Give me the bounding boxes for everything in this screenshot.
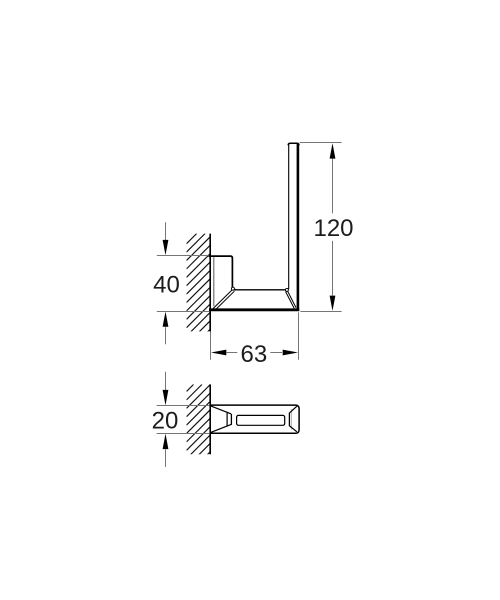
bracket right chamfer diagonals <box>287 290 296 307</box>
bar right cap shading line <box>290 409 292 430</box>
dimension 20 bottom extension line <box>157 433 210 435</box>
bar neck right vertical <box>288 413 290 427</box>
dimension 20 top extension line <box>157 405 210 407</box>
bar right taper diagonal top <box>290 406 297 413</box>
dimension 120 top arrow <box>330 143 336 158</box>
bar top edge (bottom view) <box>210 405 300 433</box>
ledge corner node right <box>285 288 288 291</box>
wall edge line (bottom view) <box>209 384 211 454</box>
wall hatch (side view) <box>187 234 306 353</box>
wall edge line (side view) <box>209 234 211 332</box>
svg-text:63: 63 <box>241 341 268 368</box>
ledge corner node left <box>231 287 234 290</box>
dimension 20 bottom arrow <box>163 434 169 449</box>
dimension 120 bottom arrow <box>330 296 336 311</box>
dimension 40 bottom arrow <box>163 312 169 327</box>
dimension 120 line lower segment <box>332 241 334 296</box>
bar neck left verticals <box>230 414 232 425</box>
upright bar top edge <box>288 143 299 145</box>
bar left taper diagonal bottom <box>210 424 231 432</box>
bracket bottom edge (thick) <box>209 308 299 311</box>
dimension 120 line upper segment <box>332 159 334 214</box>
dimension 40 bottom extension line <box>157 311 209 313</box>
dimension 20 line bottom tail <box>165 449 167 467</box>
bar inner face rounded rectangle <box>237 415 285 425</box>
dimension 120 bottom extension line <box>300 311 341 313</box>
dimension 63 right arrow <box>283 350 298 356</box>
bracket ledge line <box>234 289 286 291</box>
upright bar right edge (thick) <box>297 144 300 311</box>
dimension 20 top arrow <box>163 390 169 405</box>
dimension 63 line right segment <box>270 352 282 354</box>
bar left taper diagonal top <box>210 406 231 414</box>
dimension 120 top extension line <box>300 142 342 144</box>
dimension 40 line top tail <box>165 222 167 241</box>
bracket inner vertical face line <box>213 257 215 306</box>
dimension 63 right extension line <box>298 312 300 359</box>
bar neck tip vertical <box>226 412 228 427</box>
svg-text:20: 20 <box>152 408 179 435</box>
bracket left chamfer diagonals <box>213 290 232 309</box>
dimension 63 left arrow <box>211 350 226 356</box>
upright bar left edge <box>288 144 290 289</box>
dimension 40 top arrow <box>163 240 169 255</box>
bracket back plate top edge <box>209 256 235 290</box>
dimension 40 line bottom tail <box>165 327 167 344</box>
dimension 40 top extension line <box>157 255 210 257</box>
svg-text:120: 120 <box>313 215 353 242</box>
dimension 63 left extension line <box>210 332 212 360</box>
wall hatch (bottom view) <box>187 384 278 475</box>
bar right taper diagonal bottom <box>290 426 297 432</box>
dimension 20 line top tail <box>165 372 167 390</box>
dimension 63 line left segment <box>226 352 237 354</box>
svg-text:40: 40 <box>153 271 180 298</box>
